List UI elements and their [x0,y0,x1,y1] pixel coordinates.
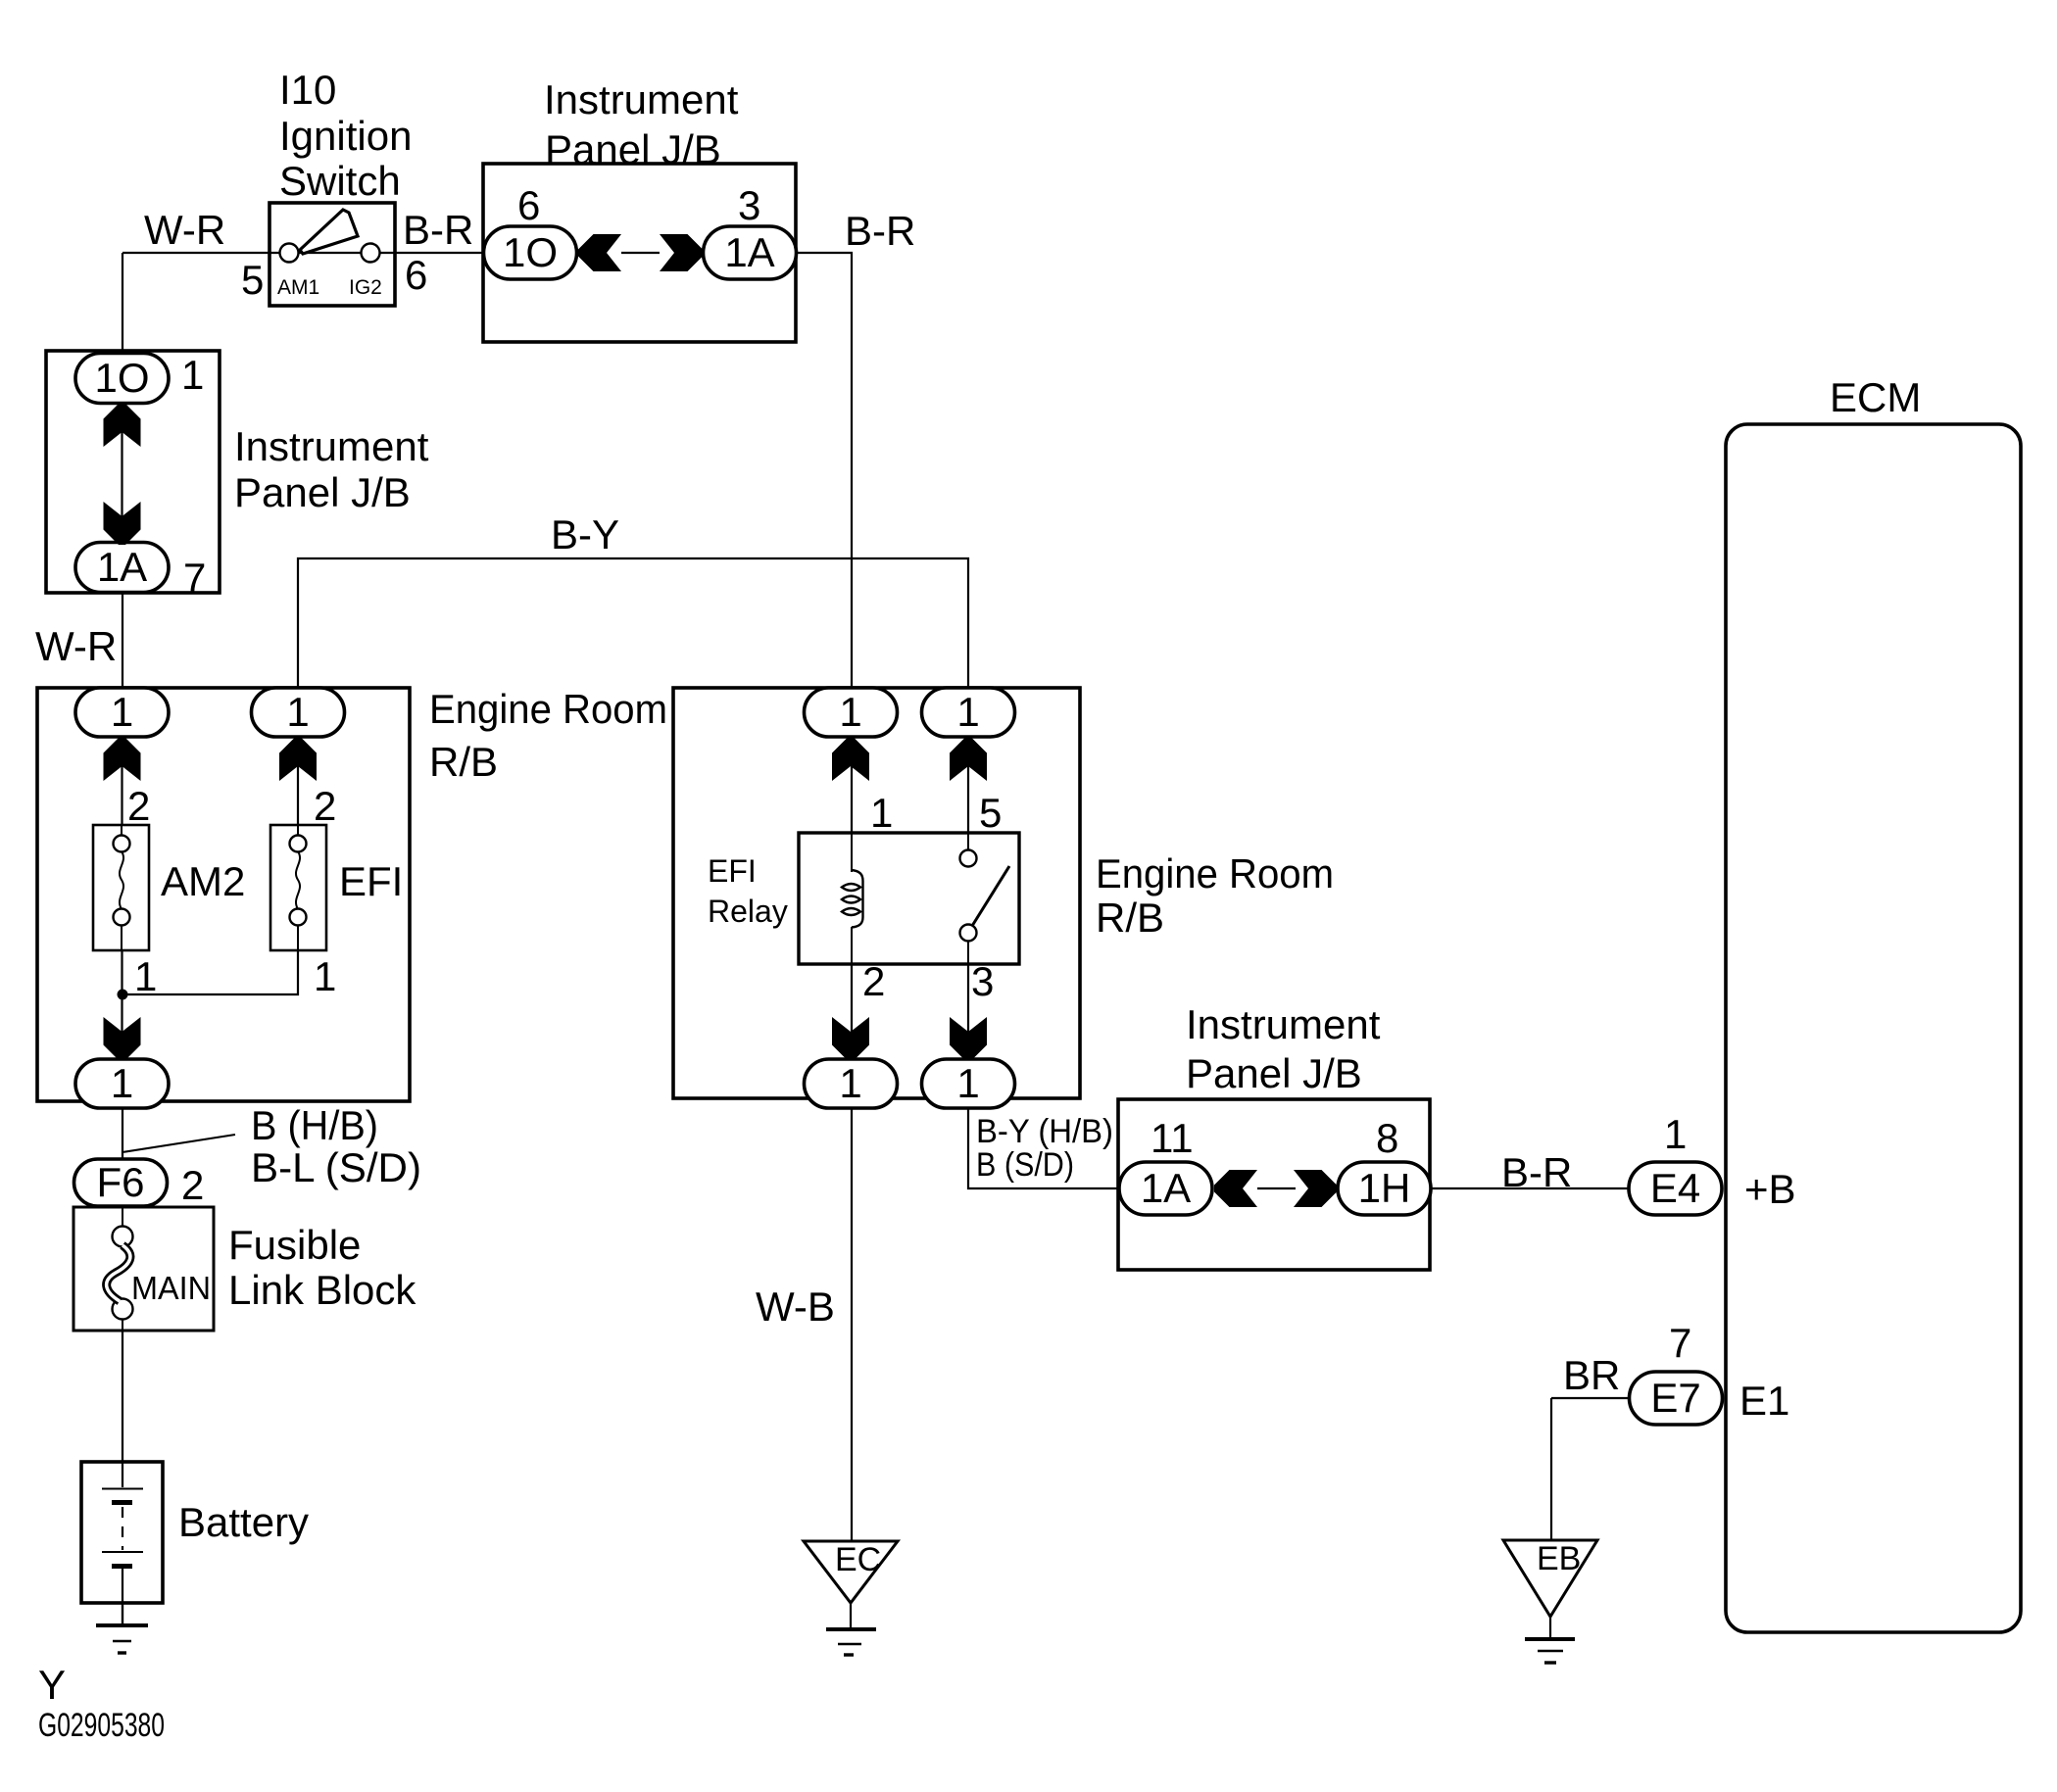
svg-text:B-R: B-R [1501,1149,1572,1195]
svg-text:B-R: B-R [845,208,915,254]
svg-text:1A: 1A [97,544,147,590]
svg-text:5: 5 [979,790,1002,836]
svg-text:6: 6 [405,252,427,298]
svg-text:1: 1 [181,352,204,398]
svg-text:Instrument: Instrument [544,76,739,122]
svg-text:EFI: EFI [708,853,757,889]
svg-text:2: 2 [181,1162,204,1208]
svg-text:2: 2 [314,783,336,829]
svg-text:3: 3 [971,958,994,1004]
svg-text:1: 1 [286,689,309,735]
svg-text:G02905380: G02905380 [38,1707,165,1744]
svg-text:Battery: Battery [178,1499,309,1545]
svg-text:1: 1 [839,689,861,735]
svg-text:Relay: Relay [708,894,788,929]
svg-text:3: 3 [738,182,760,228]
svg-text:11: 11 [1151,1115,1194,1161]
svg-text:E7: E7 [1650,1375,1700,1421]
svg-text:1: 1 [956,1060,979,1106]
svg-text:Panel J/B: Panel J/B [234,469,411,515]
svg-text:EC: EC [835,1541,881,1578]
svg-text:Panel J/B: Panel J/B [545,126,721,172]
svg-text:Fusible: Fusible [228,1222,361,1268]
svg-text:AM2: AM2 [161,858,245,904]
svg-text:ECM: ECM [1830,374,1921,420]
svg-text:1A: 1A [1141,1165,1191,1211]
svg-text:Instrument: Instrument [234,423,429,469]
svg-text:7: 7 [183,555,206,601]
svg-text:6: 6 [517,182,540,228]
svg-text:B-R: B-R [403,207,473,253]
svg-text:EB: EB [1537,1540,1581,1577]
svg-text:Switch: Switch [279,158,401,204]
svg-text:1: 1 [111,1060,133,1106]
svg-text:1: 1 [870,790,893,836]
svg-text:B (H/B): B (H/B) [251,1102,378,1148]
svg-text:R/B: R/B [429,739,498,785]
svg-text:W-R: W-R [35,623,117,669]
svg-text:B-L (S/D): B-L (S/D) [251,1144,421,1190]
svg-text:1: 1 [134,953,157,999]
svg-text:Y: Y [38,1662,66,1708]
svg-text:E1: E1 [1739,1378,1789,1424]
svg-text:1H: 1H [1358,1165,1411,1211]
svg-text:1: 1 [839,1060,861,1106]
svg-text:Engine Room: Engine Room [1096,850,1334,896]
svg-text:Ignition: Ignition [279,113,412,159]
svg-text:1: 1 [314,953,336,999]
svg-text:2: 2 [127,783,150,829]
svg-text:1: 1 [956,689,979,735]
svg-text:B-Y: B-Y [551,511,619,557]
svg-text:Engine Room: Engine Room [429,686,667,732]
svg-text:I10: I10 [279,67,336,113]
svg-text:AM1: AM1 [277,276,319,299]
svg-text:Instrument: Instrument [1186,1001,1381,1047]
svg-text:R/B: R/B [1096,895,1164,941]
svg-text:Panel J/B: Panel J/B [1186,1050,1362,1096]
svg-text:1A: 1A [724,229,774,275]
svg-text:F6: F6 [96,1159,144,1205]
svg-text:5: 5 [241,257,264,303]
svg-text:+B: +B [1744,1166,1796,1212]
svg-text:7: 7 [1669,1320,1691,1366]
svg-text:1O: 1O [94,355,149,401]
svg-text:BR: BR [1563,1352,1620,1398]
svg-text:W-B: W-B [756,1283,835,1330]
svg-text:MAIN: MAIN [131,1270,211,1306]
svg-text:W-R: W-R [144,207,225,253]
svg-text:1O: 1O [503,229,558,275]
svg-text:Link Block: Link Block [228,1267,416,1313]
svg-text:8: 8 [1376,1115,1398,1161]
svg-text:IG2: IG2 [349,276,382,299]
svg-text:B-Y (H/B): B-Y (H/B) [976,1113,1113,1150]
svg-text:EFI: EFI [339,858,403,904]
svg-text:1: 1 [111,689,133,735]
svg-text:2: 2 [862,958,885,1004]
svg-text:E4: E4 [1650,1165,1700,1211]
svg-text:1: 1 [1664,1111,1687,1157]
svg-text:B (S/D): B (S/D) [976,1146,1074,1184]
